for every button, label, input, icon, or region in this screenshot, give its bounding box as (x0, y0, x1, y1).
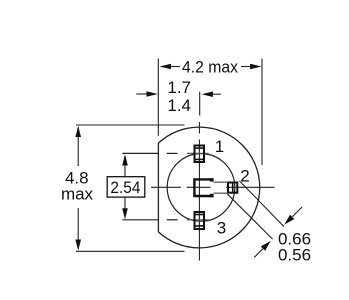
svg-text:2.54: 2.54 (110, 178, 140, 197)
svg-text:2: 2 (240, 167, 249, 186)
svg-text:3: 3 (217, 219, 226, 238)
svg-text:4.2 max: 4.2 max (182, 57, 238, 76)
svg-text:1.7: 1.7 (167, 78, 191, 97)
svg-text:1.4: 1.4 (167, 96, 191, 115)
svg-text:max: max (61, 185, 94, 204)
svg-text:0.56: 0.56 (278, 246, 311, 265)
svg-text:1: 1 (215, 137, 224, 156)
